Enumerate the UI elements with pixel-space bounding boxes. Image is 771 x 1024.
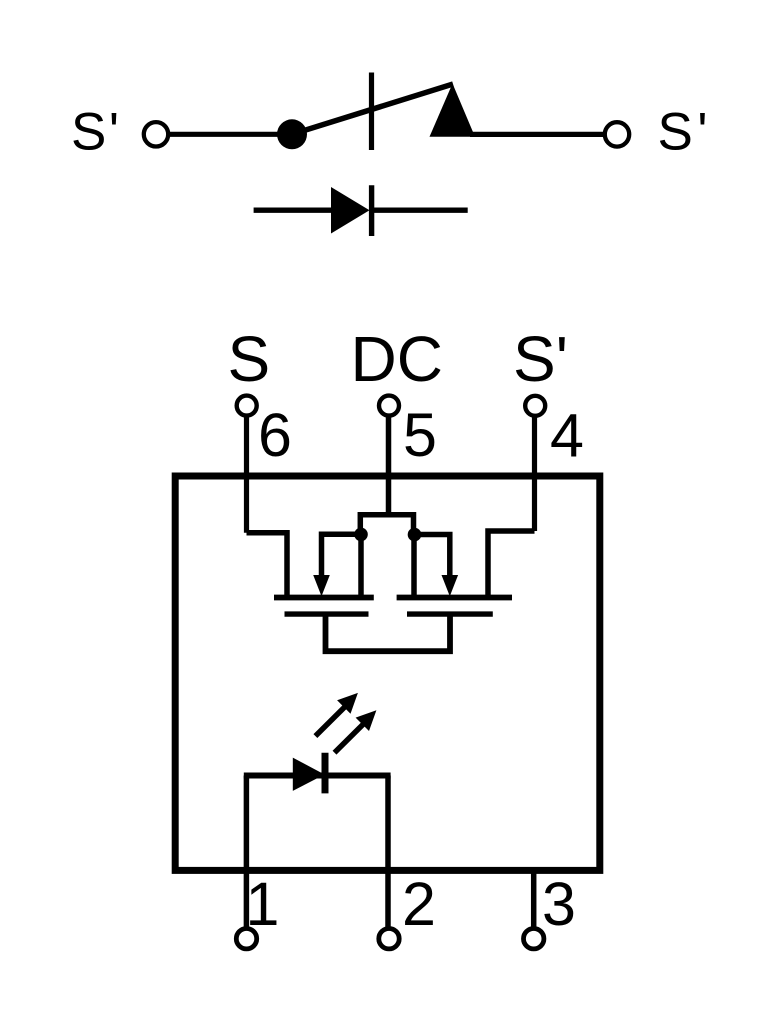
wire: pin 4 lead: [532, 416, 537, 531]
IC body box: [175, 476, 600, 870]
wire: pin 5 lead: [386, 416, 392, 517]
junction dot right: [408, 528, 422, 542]
diode cathode bar: [369, 185, 374, 236]
switch arm blade: [292, 84, 453, 134]
switch pole dot: [277, 119, 307, 149]
switch actuator bar: [369, 73, 374, 151]
terminal S' top-left open circle: [144, 122, 168, 146]
wire: gate tee from pin 5: [360, 515, 413, 535]
pin 5 terminal circle: [379, 396, 399, 416]
left MOSFET channel bar: [274, 595, 374, 601]
svg-text:3: 3: [542, 870, 576, 938]
LED cathode bar: [322, 753, 329, 794]
wire: LED anode bracket: [244, 773, 391, 779]
wire: pin 6 lead: [244, 416, 249, 533]
LED light arrow 1: [315, 693, 358, 736]
pin 2 terminal circle: [379, 929, 399, 949]
wire: diode anode lead: [254, 207, 334, 212]
pin 1 terminal circle: [236, 929, 256, 949]
diode body triangle: [331, 187, 370, 234]
wire: pin 2 lead: [385, 776, 391, 929]
wire: pin 3 lead: [531, 867, 537, 929]
svg-text:6: 6: [258, 401, 292, 469]
right MOSFET body arrow: [415, 535, 459, 597]
svg-text:S: S: [228, 323, 271, 395]
switch fixed contact triangle: [430, 84, 476, 137]
right MOSFET gate bar: [407, 611, 493, 616]
LED light arrow 2: [335, 710, 377, 753]
left MOSFET gate bar: [285, 611, 369, 616]
svg-text:DC: DC: [351, 323, 443, 395]
junction dot left: [354, 528, 368, 542]
svg-text:S': S': [71, 103, 121, 162]
svg-text:2: 2: [402, 870, 436, 938]
svg-text:S': S': [658, 103, 712, 162]
wire: diode cathode lead: [371, 207, 468, 212]
svg-text:4: 4: [550, 402, 584, 470]
wire: fixed contact to right terminal: [470, 132, 605, 137]
wire: left dot to left MOSFET channel: [358, 534, 364, 596]
pin 4 terminal circle: [525, 396, 545, 416]
wire: right dot to right MOSFET channel: [411, 535, 417, 596]
pin 6 terminal circle: [237, 396, 257, 416]
svg-text:5: 5: [403, 401, 437, 469]
right MOSFET channel bar: [397, 595, 512, 601]
pin 3 terminal circle: [524, 929, 544, 949]
terminal S' top-right open circle: [605, 122, 629, 146]
wire: left terminal to switch pole: [169, 132, 293, 137]
left MOSFET body arrow: [313, 534, 361, 596]
wire: common source U link: [326, 616, 451, 651]
wire: left drain step pin6 to left MOSFET: [247, 533, 288, 596]
wire: pin 1 lead: [244, 776, 250, 929]
wire: right drain step pin4 to right MOSFET: [488, 531, 535, 596]
svg-text:S': S': [513, 323, 568, 395]
LED body triangle: [293, 758, 325, 791]
